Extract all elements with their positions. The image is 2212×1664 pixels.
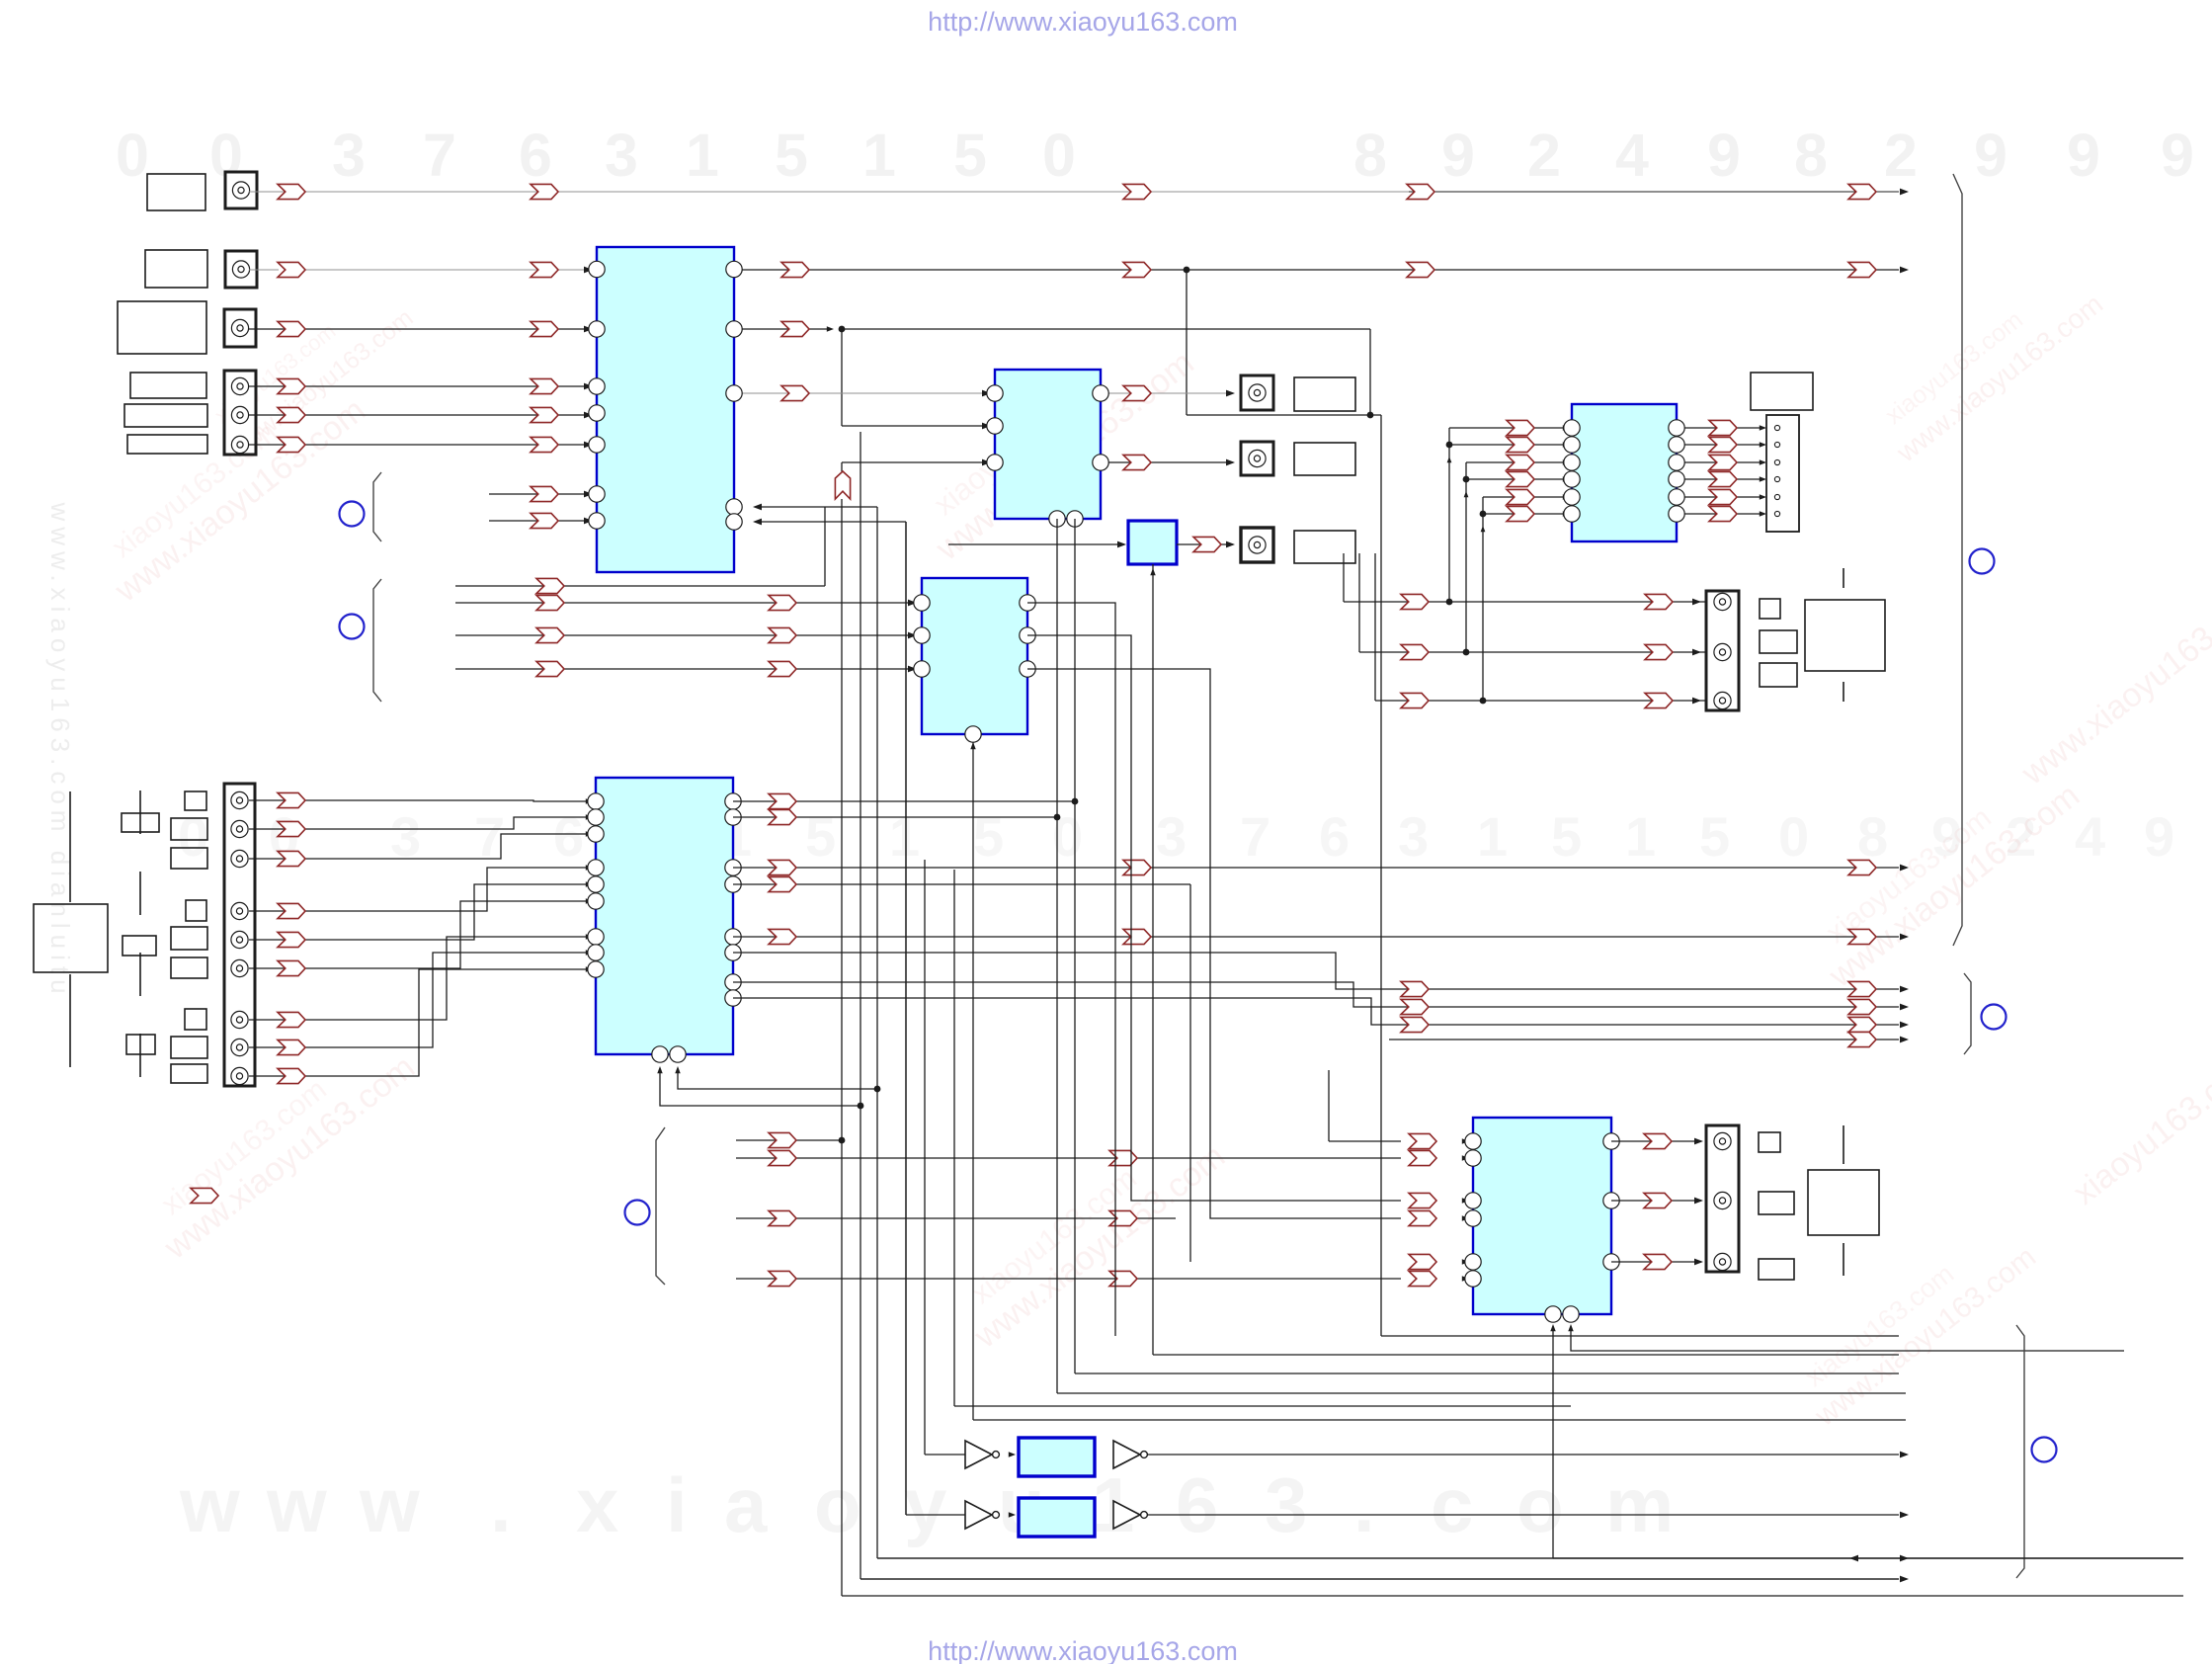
svg-text:y: y <box>904 1461 946 1548</box>
svg-text:9: 9 <box>1707 122 1741 189</box>
svg-text:5: 5 <box>1699 805 1730 868</box>
svg-text:5: 5 <box>953 122 987 189</box>
svg-text:0: 0 <box>178 805 208 868</box>
svg-text:2: 2 <box>1884 122 1918 189</box>
svg-text:8: 8 <box>1857 805 1888 868</box>
svg-text:1: 1 <box>862 122 896 189</box>
svg-text:6: 6 <box>1319 805 1350 868</box>
svg-text:6: 6 <box>1176 1461 1218 1548</box>
svg-text:i: i <box>666 1461 688 1548</box>
svg-text:9: 9 <box>2144 805 2174 868</box>
svg-text:.: . <box>490 1461 512 1548</box>
svg-text:6: 6 <box>519 122 552 189</box>
svg-text:2: 2 <box>1527 122 1561 189</box>
svg-text:w: w <box>359 1461 420 1548</box>
svg-text:www.xiaoyu163.com dianluitu: www.xiaoyu163.com dianluitu <box>45 501 75 999</box>
svg-text:http://www.xiaoyu163.com: http://www.xiaoyu163.com <box>928 7 1238 37</box>
svg-text:a: a <box>724 1461 768 1548</box>
svg-text:3: 3 <box>605 122 638 189</box>
svg-text:5: 5 <box>775 122 808 189</box>
svg-text:.: . <box>1353 1461 1375 1548</box>
svg-text:0: 0 <box>116 122 149 189</box>
svg-text:7: 7 <box>1240 805 1270 868</box>
svg-text:1: 1 <box>889 805 920 868</box>
svg-text:1: 1 <box>1477 805 1508 868</box>
svg-text:http://www.xiaoyu163.com: http://www.xiaoyu163.com <box>928 1636 1238 1664</box>
svg-text:7: 7 <box>423 122 456 189</box>
svg-text:x: x <box>576 1461 618 1548</box>
svg-text:o: o <box>1516 1461 1564 1548</box>
svg-text:6: 6 <box>553 805 584 868</box>
svg-text:4: 4 <box>2075 805 2105 868</box>
svg-text:1: 1 <box>1625 805 1656 868</box>
svg-text:1: 1 <box>686 122 719 189</box>
svg-text:9: 9 <box>1974 122 2007 189</box>
svg-text:5: 5 <box>1551 805 1582 868</box>
svg-text:3: 3 <box>1156 805 1187 868</box>
svg-text:0: 0 <box>1042 122 1076 189</box>
svg-text:w: w <box>266 1461 327 1548</box>
svg-text:3: 3 <box>1265 1461 1307 1548</box>
svg-text:3: 3 <box>332 122 366 189</box>
svg-text:c: c <box>1431 1461 1473 1548</box>
svg-text:w: w <box>179 1461 240 1548</box>
svg-text:8: 8 <box>1794 122 1828 189</box>
svg-text:3: 3 <box>1398 805 1429 868</box>
svg-text:0: 0 <box>1778 805 1809 868</box>
svg-text:4: 4 <box>1615 122 1649 189</box>
svg-text:9: 9 <box>2161 122 2194 189</box>
svg-text:5: 5 <box>805 805 836 868</box>
svg-text:9: 9 <box>1441 122 1475 189</box>
svg-text:5: 5 <box>973 805 1004 868</box>
svg-text:o: o <box>814 1461 861 1548</box>
svg-text:m: m <box>1605 1461 1674 1548</box>
svg-text:9: 9 <box>2067 122 2100 189</box>
svg-text:8: 8 <box>1353 122 1387 189</box>
